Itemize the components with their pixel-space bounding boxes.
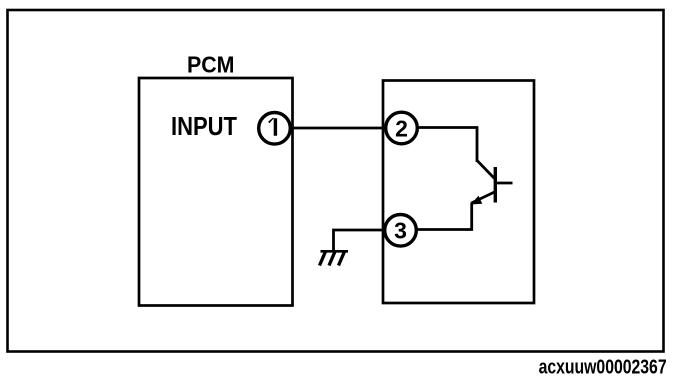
- component box: [383, 81, 534, 304]
- transistor Q1: [471, 160, 513, 205]
- wire pin3 to ground: [334, 230, 387, 251]
- PCM module box: [139, 78, 293, 306]
- wire emitter to pin3: [415, 203, 472, 230]
- ground: [320, 251, 349, 265]
- wire pin2 to transistor collector: [417, 128, 477, 163]
- figure id acxuuw00002367: [539, 357, 667, 379]
- label INPUT: [171, 113, 237, 141]
- label PCM: [187, 52, 235, 78]
- svg-text:2: 2: [395, 115, 408, 141]
- svg-text:PCM: PCM: [187, 52, 235, 78]
- pin 3: [385, 215, 417, 247]
- wire pin1 to pin2: [280, 127, 395, 130]
- svg-text:3: 3: [394, 218, 407, 244]
- pin 2: [386, 112, 418, 144]
- svg-text:INPUT: INPUT: [171, 113, 237, 141]
- svg-text:acxuuw00002367: acxuuw00002367: [539, 357, 667, 379]
- pin 1: [259, 113, 291, 145]
